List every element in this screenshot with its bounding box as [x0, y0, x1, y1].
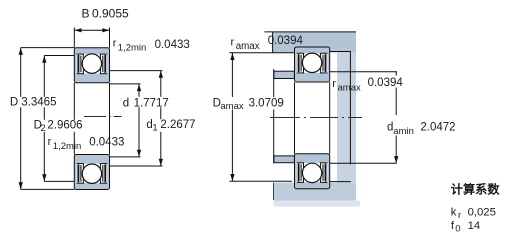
svg-text:k: k: [451, 206, 457, 218]
svg-text:2.2677: 2.2677: [160, 119, 195, 131]
svg-text:0,025: 0,025: [468, 207, 496, 219]
svg-text:计算系数: 计算系数: [451, 182, 501, 197]
svg-text:1,2min: 1,2min: [118, 43, 147, 54]
svg-text:0: 0: [455, 223, 460, 234]
svg-text:0.0433: 0.0433: [155, 39, 190, 51]
svg-text:3.0709: 3.0709: [249, 97, 284, 109]
svg-text:0.0394: 0.0394: [268, 35, 304, 47]
svg-text:B: B: [82, 7, 90, 21]
svg-text:2: 2: [40, 123, 45, 134]
svg-text:r: r: [332, 78, 336, 90]
svg-text:2.0472: 2.0472: [420, 121, 455, 133]
svg-text:r: r: [458, 210, 461, 221]
svg-text:0.0394: 0.0394: [368, 77, 404, 89]
svg-text:14: 14: [468, 220, 481, 232]
svg-text:D: D: [10, 97, 18, 109]
svg-text:r: r: [231, 37, 235, 49]
svg-text:2.9606: 2.9606: [47, 119, 82, 131]
svg-text:1,2min: 1,2min: [53, 141, 82, 152]
svg-text:r: r: [48, 136, 52, 148]
svg-text:amin: amin: [393, 126, 414, 137]
svg-text:amax: amax: [338, 82, 361, 93]
svg-text:r: r: [113, 38, 117, 50]
svg-text:d: d: [123, 97, 129, 109]
svg-text:amax: amax: [220, 101, 243, 112]
svg-text:0.9055: 0.9055: [92, 7, 129, 21]
svg-text:amax: amax: [236, 41, 260, 52]
svg-text:3.3465: 3.3465: [21, 97, 56, 109]
svg-text:1.7717: 1.7717: [134, 97, 169, 109]
svg-text:1: 1: [152, 123, 157, 134]
svg-text:0.0433: 0.0433: [89, 137, 124, 149]
